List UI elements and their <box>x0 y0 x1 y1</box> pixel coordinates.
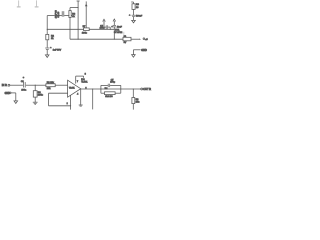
svg-text:+: + <box>50 47 52 49</box>
svg-text:100p: 100p <box>110 82 116 84</box>
svg-text:R2 22k: R2 22k <box>47 82 55 84</box>
switch S1 <box>114 29 148 44</box>
svg-text:100k: 100k <box>82 33 88 35</box>
supply rail V1 <box>77 1 80 39</box>
svg-text:+9: +9 <box>145 39 148 41</box>
resistor R2 (bias) <box>46 31 55 47</box>
svg-text:10uF: 10uF <box>117 26 123 28</box>
connector pin P1 <box>17 0 21 7</box>
node junction at 47,29.3 <box>47 29 48 30</box>
capacitor C7 feedback <box>101 80 121 90</box>
svg-text:TL071: TL071 <box>81 81 88 83</box>
svg-text:8: 8 <box>85 74 87 76</box>
capacitor C9 <box>129 15 143 21</box>
svg-text:BT1: BT1 <box>115 29 120 31</box>
capacitor C3 <box>45 47 61 55</box>
resistor R3 <box>69 8 76 40</box>
gnd flag GND1 <box>132 49 147 57</box>
svg-text:100n: 100n <box>100 28 106 30</box>
svg-text:4: 4 <box>77 93 79 95</box>
ground under R1 <box>33 102 38 104</box>
ground under C3 <box>45 55 49 58</box>
op-amp V- ground drop <box>77 89 83 106</box>
output wire <box>81 88 141 89</box>
svg-text:IN R: IN R <box>2 83 7 87</box>
resistor R8 <box>131 2 139 15</box>
svg-text:GND: GND <box>141 49 147 52</box>
svg-text:9V 6F22: 9V 6F22 <box>114 32 123 34</box>
connector pin P2 <box>35 0 39 7</box>
wire node A vertical <box>46 16 48 32</box>
capacitor C1 <box>21 81 35 91</box>
wire drop at output node <box>92 89 94 109</box>
svg-text:1k: 1k <box>51 38 54 40</box>
svg-text:6k8 1%: 6k8 1% <box>105 96 112 98</box>
svg-text:100uF: 100uF <box>136 16 143 18</box>
op-amp inverting input wire <box>49 93 72 109</box>
svg-text:C2 16: C2 16 <box>58 11 60 18</box>
node junction input <box>35 85 36 86</box>
svg-text:+: + <box>129 15 131 17</box>
svg-text:10: 10 <box>136 7 139 9</box>
svg-text:10k: 10k <box>136 101 140 103</box>
wire node A horizontal to C2 <box>47 15 62 17</box>
terminal IN R <box>2 83 23 87</box>
svg-text:1k: 1k <box>72 16 75 18</box>
svg-text:OUT R: OUT R <box>143 88 151 91</box>
svg-text:9V: 9V <box>124 42 127 44</box>
resistor R4 feedback <box>101 88 121 98</box>
resistor R6 to ground <box>132 89 140 110</box>
svg-text:22k: 22k <box>47 88 51 90</box>
svg-text:*: * <box>23 76 25 80</box>
resistor R1 to ground <box>33 85 43 102</box>
svg-text:1uF 50V: 1uF 50V <box>53 50 62 52</box>
capacitor C4 <box>100 19 111 30</box>
wire bias rail y=29.3 <box>47 28 114 30</box>
terminal OUT R <box>141 88 151 91</box>
svg-text:100k: 100k <box>38 95 44 97</box>
capacitor C5 <box>111 19 122 40</box>
svg-text:7: 7 <box>77 81 79 83</box>
svg-text:1: 1 <box>67 103 69 105</box>
supply rail y=38.8 <box>70 39 124 40</box>
svg-text:100n: 100n <box>21 89 27 91</box>
resistor R7 <box>82 26 89 34</box>
resistor R2 series input <box>46 82 55 90</box>
capacitor C2 <box>55 9 69 18</box>
ground under C9 <box>132 20 136 22</box>
wire to op-amp + input <box>55 84 67 86</box>
op-amp V+ pin <box>76 74 87 84</box>
wire R3 top to rail V1 <box>70 7 78 9</box>
svg-text:TL071: TL071 <box>69 87 76 89</box>
supply arrow V2 <box>85 1 88 27</box>
op-amp IC1 TL071 <box>68 79 89 97</box>
ground under GND stub <box>14 101 18 104</box>
terminal GND <box>5 92 16 101</box>
